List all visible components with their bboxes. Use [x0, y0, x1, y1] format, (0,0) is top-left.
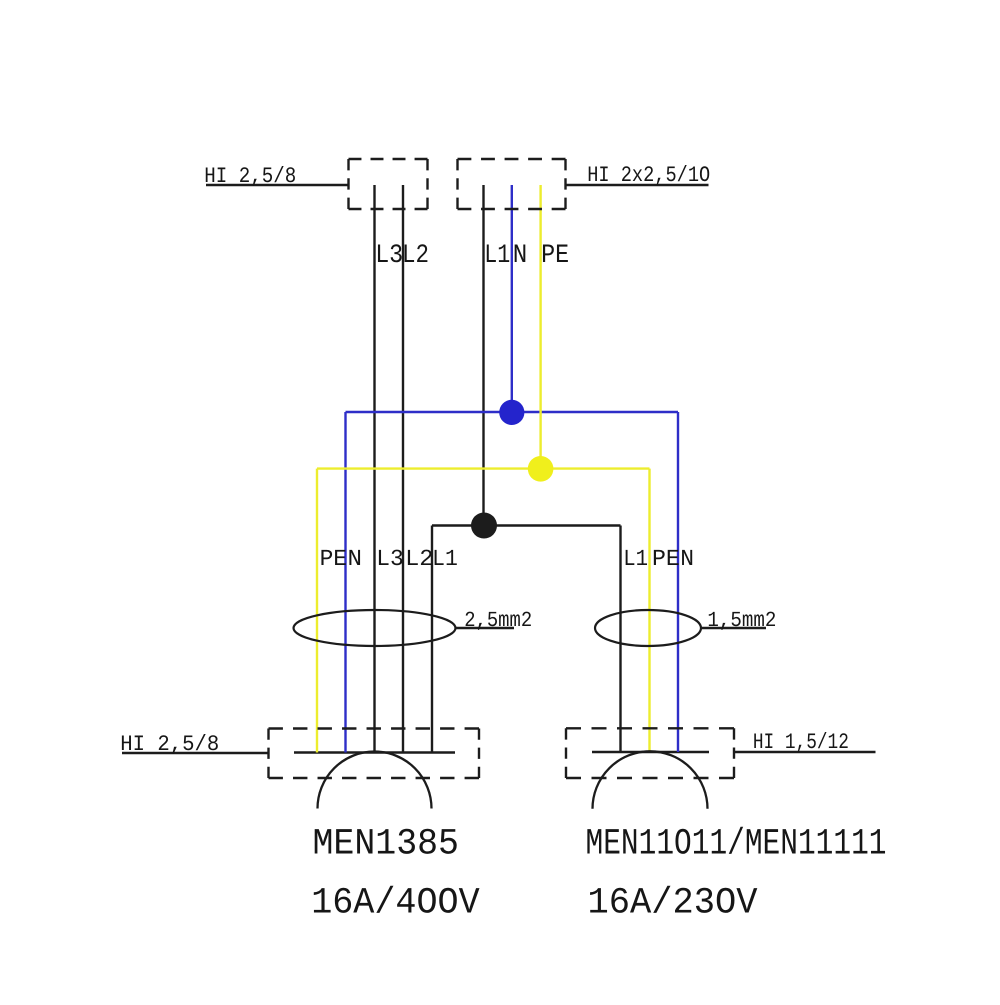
svg-text:1,5mm2: 1,5mm2 — [707, 609, 776, 633]
svg-text:L1: L1 — [623, 546, 648, 572]
svg-text:N: N — [348, 546, 363, 572]
svg-text:2,5mm2: 2,5mm2 — [464, 609, 532, 633]
svg-text:16A/23OV: 16A/23OV — [588, 883, 758, 925]
svg-text:L2: L2 — [405, 546, 433, 572]
svg-text:HI 2,5/8: HI 2,5/8 — [120, 732, 219, 757]
svg-text:N: N — [680, 546, 694, 572]
svg-text:L1: L1 — [432, 546, 458, 572]
svg-text:HI 2,5/8: HI 2,5/8 — [204, 164, 296, 189]
svg-text:PE: PE — [541, 240, 569, 270]
svg-text:HI 2x2,5/1O: HI 2x2,5/1O — [587, 163, 710, 188]
svg-text:16A/4OOV: 16A/4OOV — [311, 883, 480, 925]
svg-text:N: N — [513, 240, 528, 270]
svg-text:MEN11O11/MEN11111: MEN11O11/MEN11111 — [586, 824, 887, 866]
svg-text:PE: PE — [652, 546, 680, 572]
svg-text:MEN1385: MEN1385 — [313, 824, 460, 866]
svg-text:L3: L3 — [376, 546, 404, 572]
svg-text:L2: L2 — [402, 240, 429, 270]
svg-text:PE: PE — [320, 546, 347, 572]
svg-text:HI 1,5/12: HI 1,5/12 — [753, 730, 849, 755]
svg-text:L3: L3 — [375, 240, 403, 270]
svg-text:L1: L1 — [484, 240, 510, 270]
